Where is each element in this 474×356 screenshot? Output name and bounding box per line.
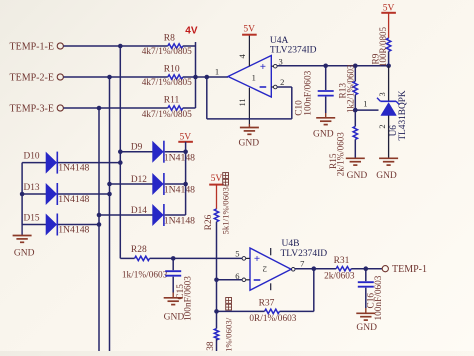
U6 pin 3 cathode bbox=[388, 66, 390, 102]
wire R37 to pin6 branch bbox=[217, 310, 265, 312]
junction R9 U6 bbox=[386, 64, 391, 69]
wire pin6 down bbox=[216, 280, 218, 312]
svg-text:1N4148: 1N4148 bbox=[58, 162, 89, 173]
svg-text:R31: R31 bbox=[334, 256, 350, 266]
svg-text:GND: GND bbox=[14, 249, 35, 259]
diode D13 bbox=[22, 193, 46, 195]
resistor R31 bbox=[336, 267, 351, 271]
resistor R11 bbox=[168, 106, 183, 110]
diode D10 bbox=[22, 162, 46, 164]
resistor R10 bbox=[168, 75, 183, 79]
svg-text:R37: R37 bbox=[259, 298, 275, 308]
resistor R37 bbox=[265, 309, 280, 313]
ground R15 bbox=[346, 157, 365, 159]
svg-text:2: 2 bbox=[377, 124, 387, 128]
svg-text:GND: GND bbox=[164, 312, 185, 322]
svg-text:1k2/1%/0603: 1k2/1%/0603 bbox=[345, 64, 355, 113]
wire TEMP-2-E to R10 bbox=[63, 76, 167, 78]
capacitor C15 bbox=[172, 258, 174, 270]
wire R11 right bbox=[183, 107, 196, 109]
svg-text:TEMP-2-E: TEMP-2-E bbox=[10, 73, 54, 84]
svg-text:2: 2 bbox=[263, 264, 267, 274]
svg-text:+: + bbox=[254, 253, 260, 265]
junction bus3 row3 bbox=[97, 106, 102, 111]
resistor R26 bbox=[216, 185, 218, 209]
junction 4V bus bbox=[193, 75, 198, 80]
svg-text:TEMP-1: TEMP-1 bbox=[392, 264, 427, 275]
junction D14 bus bbox=[97, 213, 102, 218]
svg-text:0R/1%/0603: 0R/1%/0603 bbox=[249, 314, 296, 324]
U4B pin 7 bbox=[291, 268, 295, 272]
wire 4V to U4A out bbox=[196, 76, 229, 78]
junction bus1 row1 bbox=[118, 44, 123, 49]
svg-text:GND: GND bbox=[313, 129, 334, 139]
U4A pin 2 bbox=[271, 86, 273, 88]
resistor R13 bbox=[354, 66, 356, 82]
junction D10 bus bbox=[118, 160, 123, 165]
svg-text:U4B: U4B bbox=[282, 239, 300, 249]
svg-text:GND: GND bbox=[356, 323, 377, 333]
svg-text:2: 2 bbox=[280, 77, 284, 87]
junction D12 bus bbox=[107, 182, 112, 187]
resistor R28 bbox=[135, 256, 150, 260]
svg-text:GND: GND bbox=[239, 139, 260, 149]
wire 5V clamp bus bbox=[185, 142, 187, 215]
svg-text:100nF/0603: 100nF/0603 bbox=[183, 276, 193, 321]
wire bus TEMP-2 bbox=[109, 77, 111, 351]
svg-text:+: + bbox=[260, 61, 266, 73]
junction C16 bbox=[364, 266, 369, 271]
wire out to R37 bbox=[313, 269, 315, 312]
ground C15 bbox=[172, 293, 174, 298]
junction D15 bus bbox=[97, 222, 102, 227]
svg-text:2k/1%/0603: 2k/1%/0603 bbox=[335, 132, 345, 176]
svg-text:4k7/1%/0805: 4k7/1%/0805 bbox=[142, 110, 192, 120]
junction R13 top bbox=[353, 64, 358, 69]
junction D13 anode bbox=[20, 192, 25, 197]
junction bus2 row2 bbox=[107, 75, 112, 80]
svg-text:1k/1%/0603: 1k/1%/0603 bbox=[122, 270, 168, 280]
U6 pin 2 anode bbox=[388, 116, 390, 159]
op-amp U4A bbox=[228, 56, 271, 98]
junction D13 bus bbox=[107, 192, 112, 197]
wire R31 to port bbox=[351, 268, 382, 270]
wire TEMP-3-E to R11 bbox=[63, 107, 167, 109]
U4A pin 3 bbox=[271, 65, 273, 67]
port TEMP-1 bbox=[382, 266, 388, 272]
junction R26 pin6 bbox=[214, 278, 219, 283]
svg-text:D14: D14 bbox=[131, 206, 147, 216]
diode D12 bbox=[110, 183, 153, 185]
capacitor C10 bbox=[325, 66, 327, 90]
svg-text:TEMP-3-E: TEMP-3-E bbox=[10, 104, 54, 115]
wire R8 right bbox=[183, 45, 196, 47]
svg-text:TLV2374ID: TLV2374ID bbox=[270, 46, 317, 56]
svg-text:4k7/1%/0805: 4k7/1%/0805 bbox=[142, 47, 192, 57]
wire 4V bus bbox=[195, 42, 197, 108]
junction D12 cathode bbox=[183, 182, 188, 187]
junction C10 bbox=[323, 64, 328, 69]
ground U4A bbox=[248, 124, 250, 128]
svg-text:D15: D15 bbox=[24, 213, 40, 223]
svg-text:R10: R10 bbox=[164, 65, 180, 75]
svg-text:4V: 4V bbox=[185, 25, 198, 36]
svg-text:3: 3 bbox=[278, 56, 282, 66]
wire R10 right bbox=[183, 76, 196, 78]
U4A pin 11 bbox=[248, 88, 250, 124]
svg-text:100nF/0603: 100nF/0603 bbox=[303, 70, 313, 115]
svg-text:11: 11 bbox=[237, 98, 247, 106]
diode D14 bbox=[99, 214, 153, 216]
resistor R15 bbox=[354, 110, 356, 126]
svg-text:3: 3 bbox=[377, 92, 387, 96]
capacitor C16 bbox=[365, 269, 367, 282]
junction D9 bus bbox=[118, 149, 123, 154]
shunt regulator U6 TL431 bbox=[380, 100, 396, 102]
svg-text:4k7/1%/0805: 4k7/1%/0805 bbox=[142, 78, 192, 88]
svg-text:R26: R26 bbox=[204, 214, 214, 230]
op-amp U4B bbox=[250, 248, 291, 290]
wire bus TEMP-3 bbox=[98, 108, 100, 351]
junction D9 cathode bbox=[183, 149, 188, 154]
ground C10 bbox=[325, 113, 327, 118]
junction out feedback bbox=[312, 266, 317, 271]
svg-text:1N4148: 1N4148 bbox=[164, 216, 195, 227]
U4A pin 4 bbox=[248, 35, 250, 67]
svg-text:D13: D13 bbox=[24, 183, 40, 193]
wire TEMP-1-E to R8 bbox=[63, 45, 167, 47]
svg-text:1: 1 bbox=[252, 72, 256, 82]
wire bus TEMP-1 bbox=[119, 46, 121, 258]
svg-text:1N4148: 1N4148 bbox=[164, 185, 195, 196]
svg-text:R8: R8 bbox=[164, 34, 175, 44]
svg-text:6: 6 bbox=[235, 271, 239, 281]
wire pin3 net bbox=[277, 65, 389, 67]
ground C16 bbox=[365, 308, 367, 313]
junction R37 R38 bbox=[214, 309, 219, 314]
svg-text:1: 1 bbox=[215, 66, 219, 76]
svg-text:D12: D12 bbox=[131, 175, 147, 185]
svg-text:D9: D9 bbox=[131, 143, 143, 153]
wire pin6 link bbox=[217, 279, 243, 281]
svg-text:5V: 5V bbox=[243, 25, 255, 35]
diode D15 bbox=[22, 224, 46, 226]
resistor R8 bbox=[168, 44, 183, 48]
svg-text:D10: D10 bbox=[24, 151, 40, 161]
wire U4A feedback bbox=[206, 77, 208, 119]
resistor R9 bbox=[388, 13, 390, 38]
svg-text:5V: 5V bbox=[211, 174, 223, 184]
svg-text:1N4148: 1N4148 bbox=[58, 224, 89, 235]
svg-text:5: 5 bbox=[235, 248, 239, 258]
wire left diode bus bbox=[21, 163, 23, 225]
svg-text:100R/0805: 100R/0805 bbox=[378, 26, 388, 67]
svg-text:TL431BQPK: TL431BQPK bbox=[398, 90, 408, 140]
resistor R38 bbox=[216, 311, 218, 328]
ground diode bus bbox=[21, 225, 23, 236]
svg-text:4: 4 bbox=[237, 54, 247, 59]
wire U4B out bbox=[295, 268, 336, 270]
junction C15 bbox=[171, 256, 176, 261]
svg-text:1%/0603/: 1%/0603/ bbox=[224, 317, 234, 351]
junction feedback branch bbox=[205, 75, 210, 80]
svg-text:GND: GND bbox=[376, 171, 397, 181]
svg-text:1N4148: 1N4148 bbox=[164, 152, 195, 163]
svg-text:5k1/1%/0603/: 5k1/1%/0603/ bbox=[221, 184, 231, 234]
wire bus1 corner to R28 bbox=[120, 257, 134, 259]
svg-text:2k/0603: 2k/0603 bbox=[324, 271, 355, 281]
svg-text:TEMP-1-E: TEMP-1-E bbox=[10, 42, 54, 53]
svg-text:R38: R38 bbox=[206, 341, 216, 351]
U4B pin 6 bbox=[246, 279, 250, 281]
svg-text:GND: GND bbox=[347, 171, 368, 181]
svg-text:100nF/0603: 100nF/0603 bbox=[374, 275, 384, 320]
wire U6 ref bbox=[355, 109, 378, 111]
ground U6 bbox=[379, 157, 398, 159]
svg-text:1N4148: 1N4148 bbox=[58, 194, 89, 205]
junction R13 R15 ref bbox=[353, 108, 358, 113]
svg-text:R11: R11 bbox=[164, 96, 180, 106]
svg-text:7: 7 bbox=[300, 258, 304, 268]
U4B pin 5 bbox=[246, 257, 250, 259]
svg-text:1: 1 bbox=[363, 99, 367, 109]
svg-text:R28: R28 bbox=[131, 245, 147, 255]
diode D9 bbox=[120, 151, 152, 153]
wire R28 to pin5 bbox=[150, 257, 243, 259]
